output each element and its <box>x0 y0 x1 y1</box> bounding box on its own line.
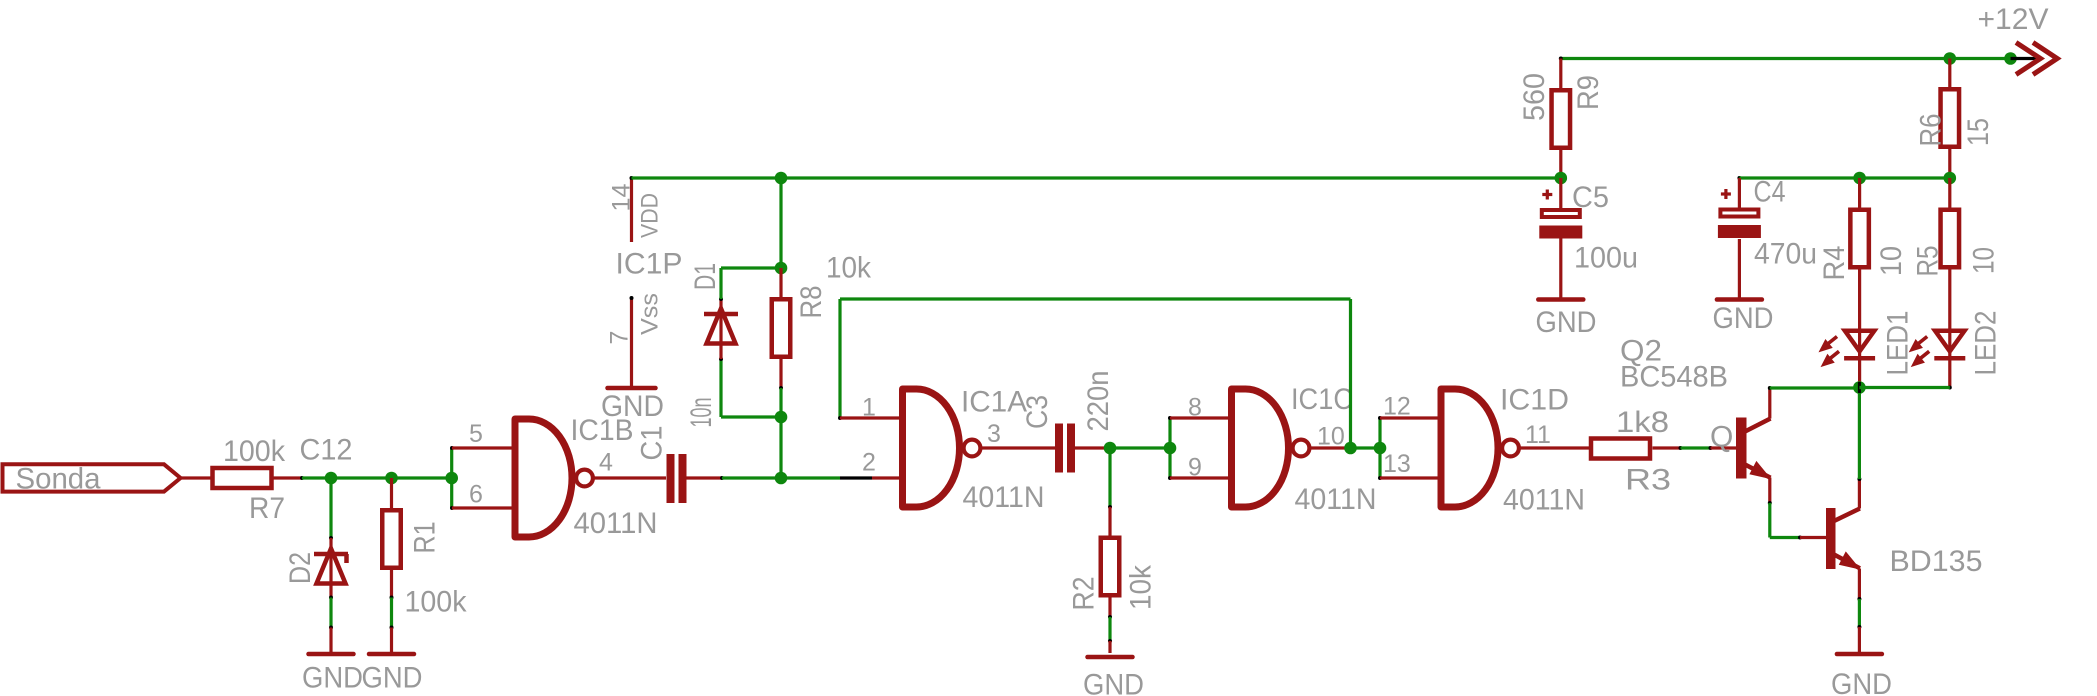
svg-text:10: 10 <box>1317 423 1345 451</box>
ground below BD135 <box>1831 654 1892 696</box>
svg-text:14: 14 <box>608 183 636 211</box>
pin 8 of IC1C <box>1170 394 1232 422</box>
svg-text:C1: C1 <box>636 426 669 461</box>
svg-text:9: 9 <box>1188 454 1202 482</box>
svg-text:R7: R7 <box>249 492 285 525</box>
svg-text:R2: R2 <box>1068 577 1101 611</box>
pin 1 of IC1A <box>840 394 903 422</box>
wire R2 to ground <box>1108 598 1112 654</box>
wire C1 to node <box>687 476 841 480</box>
svg-text:10: 10 <box>1968 247 2001 274</box>
junction at IC1C output <box>1344 442 1357 455</box>
pin 3 of IC1A <box>982 420 1055 448</box>
svg-text:IC1P: IC1P <box>616 248 683 281</box>
wire D1 bottom <box>719 357 781 417</box>
resistor R9 <box>1518 73 1605 148</box>
svg-text:GND: GND <box>1536 306 1597 339</box>
wire R1 to ground <box>390 570 394 652</box>
wire R7 to node <box>274 476 332 480</box>
wire flag to R7 <box>181 476 211 479</box>
svg-text:R5: R5 <box>1912 246 1945 277</box>
svg-text:12: 12 <box>1383 393 1411 421</box>
wire Q2 collector <box>1768 386 1860 419</box>
svg-text:R1: R1 <box>409 522 442 554</box>
pin 9 of IC1C <box>1170 454 1232 482</box>
pin 6 of IC1B <box>452 481 515 509</box>
junction at supply arrow <box>2004 52 2017 65</box>
label C12 <box>300 434 353 467</box>
wire R9 bottom <box>1559 150 1562 178</box>
wire node to VDD <box>779 178 782 268</box>
resistor R6 <box>1915 89 1996 147</box>
svg-text:5: 5 <box>469 420 483 448</box>
svg-text:220n: 220n <box>1082 371 1115 432</box>
wire Q2 emitter <box>1768 478 1802 540</box>
op-amp gate IC1D (NAND 4011N) <box>1441 384 1585 517</box>
transistor BD135 <box>1826 508 1983 578</box>
junction at R4 top <box>1853 172 1866 185</box>
svg-text:Q: Q <box>1710 421 1733 454</box>
svg-text:100k: 100k <box>405 586 468 619</box>
svg-text:BC548B: BC548B <box>1620 361 1728 394</box>
svg-text:6: 6 <box>469 481 483 509</box>
wire main input net <box>331 476 452 479</box>
svg-text:C3: C3 <box>1021 395 1054 429</box>
ground below C4 <box>1713 300 1774 336</box>
ground below R2 <box>1083 657 1144 696</box>
wire R1 top <box>390 478 393 508</box>
wire LED1 to junction <box>1858 358 1861 388</box>
svg-text:11: 11 <box>1525 421 1551 449</box>
wire node up to D1/R8 <box>779 417 782 478</box>
svg-text:3: 3 <box>987 420 1001 448</box>
op-amp gate IC1B (NAND 4011N) <box>515 414 658 540</box>
wire feedback net <box>840 299 1351 448</box>
ground below C5 <box>1536 300 1597 340</box>
wire BD135 emitter <box>1857 569 1861 653</box>
junction at R2 <box>1104 442 1117 455</box>
junction at IC1B inputs <box>445 472 458 485</box>
resistor R2 <box>1068 538 1158 611</box>
wire R5 top <box>1948 178 1951 208</box>
junction main node <box>775 472 788 485</box>
svg-text:GND: GND <box>362 662 423 695</box>
pin 4 of IC1B <box>595 449 667 479</box>
svg-text:1: 1 <box>862 394 876 422</box>
svg-text:GND: GND <box>601 390 664 423</box>
svg-text:+12V: +12V <box>1978 3 2049 36</box>
svg-text:D1: D1 <box>689 263 722 290</box>
pin BD135 base <box>1800 536 1826 539</box>
diode LED2 <box>1910 311 2003 376</box>
svg-text:560: 560 <box>1518 73 1551 121</box>
svg-text:LED1: LED1 <box>1882 311 1915 376</box>
wire C4 to ground <box>1738 239 1741 298</box>
resistor R8 <box>772 252 872 357</box>
junction at D2 <box>325 472 338 485</box>
wire junction to IC1C pins <box>1168 416 1172 480</box>
svg-text:10k: 10k <box>1125 564 1158 610</box>
wire C4 net <box>1737 176 1949 180</box>
wire C3 to junction <box>1075 446 1170 449</box>
wire C5 to ground <box>1559 239 1562 298</box>
pin 14 VDD of IC1P <box>608 176 664 242</box>
diode LED1 <box>1820 311 1915 376</box>
label IC1P <box>616 248 683 281</box>
pin 13 of IC1D <box>1380 450 1441 478</box>
op-amp gate IC1A (NAND 4011N) <box>903 386 1045 515</box>
junction below LED1 <box>1853 381 1866 394</box>
svg-text:100u: 100u <box>1574 242 1638 275</box>
svg-text:R9: R9 <box>1572 75 1605 110</box>
label Q2 BC548B <box>1620 335 1728 394</box>
svg-text:IC1A: IC1A <box>961 386 1027 419</box>
svg-text:4011N: 4011N <box>963 481 1045 514</box>
wire LED2 to node <box>1859 358 1951 390</box>
resistor R3 <box>1591 406 1671 497</box>
wire BD135 collector <box>1857 388 1861 509</box>
svg-text:1k8: 1k8 <box>1616 406 1669 439</box>
svg-text:R3: R3 <box>1625 464 1671 497</box>
transistor Q2 <box>1736 418 1771 479</box>
svg-text:VDD: VDD <box>637 193 664 238</box>
ground below D2 <box>302 654 363 695</box>
svg-text:10n: 10n <box>685 398 718 428</box>
wire R4 to LED1 <box>1858 270 1861 329</box>
svg-text:C5: C5 <box>1572 181 1609 214</box>
wire R6 top <box>1948 59 1951 88</box>
pin 5 of IC1B <box>452 420 515 448</box>
svg-text:C4: C4 <box>1754 176 1786 209</box>
svg-text:4: 4 <box>599 449 613 477</box>
svg-text:BD135: BD135 <box>1890 545 1983 578</box>
svg-text:10: 10 <box>1875 246 1908 276</box>
wire R9 top <box>1559 59 1562 89</box>
svg-text:15: 15 <box>1962 118 1995 146</box>
svg-text:8: 8 <box>1188 394 1202 422</box>
junction at IC1D inputs <box>1374 442 1387 455</box>
ground below VSS <box>601 364 664 423</box>
svg-text:100k: 100k <box>223 435 286 468</box>
junction at R5 top <box>1944 172 1957 185</box>
wire to D2 <box>329 478 333 552</box>
wire R8 top pin <box>779 268 782 298</box>
svg-text:Sonda: Sonda <box>16 463 101 496</box>
pin 12 of IC1D <box>1380 393 1441 421</box>
wire junction to IC1D pins <box>1378 416 1382 480</box>
wire R6 bottom <box>1948 149 1951 178</box>
svg-text:4011N: 4011N <box>574 507 658 540</box>
label Q <box>1710 421 1733 454</box>
capacitor C4 <box>1718 176 1817 271</box>
svg-text:10k: 10k <box>826 252 872 285</box>
node Sonda input flag <box>3 463 181 496</box>
wire C5 top <box>1559 178 1562 208</box>
wire R4 top <box>1858 178 1861 208</box>
diode D2 (zener) <box>284 549 348 586</box>
resistor R7 <box>213 435 286 525</box>
svg-text:LED2: LED2 <box>1970 311 2003 376</box>
junction VDD at node column <box>775 172 788 185</box>
svg-text:IC1D: IC1D <box>1500 384 1569 417</box>
svg-text:R8: R8 <box>795 286 828 319</box>
pin 10 of IC1C <box>1311 423 1351 451</box>
wire C4 top <box>1738 178 1741 208</box>
resistor R4 <box>1818 210 1908 281</box>
capacitor C3 <box>1021 371 1115 473</box>
wire junction to IC1B pins <box>450 446 454 510</box>
junction at R1 <box>385 472 398 485</box>
wire IC1C out to IC1D <box>1351 446 1381 449</box>
svg-text:4011N: 4011N <box>1503 484 1585 517</box>
wire D2 to ground <box>329 582 333 652</box>
diode D1 <box>689 263 738 359</box>
wire black pin2 stub <box>840 476 872 479</box>
junction at C5 <box>1555 172 1568 185</box>
resistor R5 <box>1912 210 2001 277</box>
svg-text:GND: GND <box>1713 302 1774 335</box>
svg-text:R4: R4 <box>1818 246 1851 281</box>
junction at R8 bottom <box>775 411 788 424</box>
svg-text:4011N: 4011N <box>1295 483 1377 516</box>
svg-text:C12: C12 <box>300 434 353 467</box>
wire R3 to Q2 base <box>1653 446 1737 450</box>
wire D1 top <box>721 268 781 299</box>
junction at R8 top <box>775 262 788 275</box>
wire +12V rail <box>1559 57 2011 61</box>
wire R2 top <box>1108 448 1112 536</box>
svg-text:13: 13 <box>1383 450 1411 478</box>
svg-text:7: 7 <box>606 331 634 345</box>
junction at IC1C inputs <box>1164 442 1177 455</box>
pin 11 of IC1D <box>1521 421 1590 449</box>
op-amp gate IC1C (NAND 4011N) <box>1232 383 1377 516</box>
capacitor C5 <box>1539 181 1638 275</box>
svg-text:IC1C: IC1C <box>1291 383 1353 416</box>
svg-text:GND: GND <box>1083 669 1144 696</box>
svg-text:2: 2 <box>862 449 876 477</box>
ground below R1 <box>362 654 423 695</box>
capacitor C1 <box>636 398 719 504</box>
svg-text:D2: D2 <box>284 552 317 584</box>
svg-text:GND: GND <box>302 662 363 695</box>
svg-text:R6: R6 <box>1915 114 1948 147</box>
junction at R6 top <box>1944 52 1957 65</box>
pin 2 of IC1A <box>862 449 903 479</box>
wire VDD supply net <box>632 176 1561 179</box>
svg-text:GND: GND <box>1831 668 1892 696</box>
wire R5 to LED2 <box>1948 270 1951 329</box>
wire R8 bottom pin <box>779 357 783 417</box>
resistor R1 <box>382 510 467 618</box>
pin 7 VSS of IC1P <box>606 293 664 364</box>
svg-text:Vss: Vss <box>637 293 664 335</box>
svg-text:470u: 470u <box>1754 238 1817 271</box>
node +12V supply arrow <box>1978 3 2058 75</box>
wire feedback down <box>838 299 842 420</box>
